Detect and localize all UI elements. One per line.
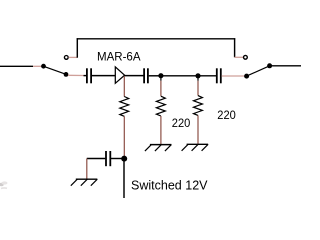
capacitor C4	[217, 68, 221, 83]
wire input left	[0, 65, 42, 67]
svg-text:220: 220	[172, 116, 191, 130]
wire node B to C4	[198, 75, 216, 77]
wire output right	[270, 65, 301, 67]
wire node B stub down	[197, 76, 199, 96]
switch S2 pole dot	[244, 74, 249, 79]
switch S2 blade	[247, 66, 270, 76]
ground G3	[182, 144, 209, 151]
wire switch S1 to C1	[68, 74, 86, 76]
switch S1 blade	[44, 66, 66, 74]
capacitor C2	[144, 68, 148, 83]
wire C4 to switch S2	[222, 75, 245, 77]
ground G1	[71, 179, 98, 186]
wire node A to node B	[161, 75, 198, 77]
wire C3 to ground corner	[87, 158, 106, 160]
wire C2 to node A	[149, 75, 161, 77]
wire stub to bypass left riser	[69, 56, 78, 58]
wire R3 to ground G3	[197, 115, 199, 143]
wire node C to C3	[111, 158, 122, 160]
resistor R1	[120, 97, 129, 117]
svg-text:MAR-6A: MAR-6A	[97, 50, 141, 64]
wire R2 to ground G2	[160, 116, 162, 144]
svg-text:220: 220	[217, 108, 236, 122]
ground G2	[145, 145, 172, 152]
node C junction dot	[121, 156, 127, 162]
wire node C to bottom edge	[123, 161, 125, 199]
node B junction dot	[195, 73, 200, 78]
bypass rail left riser	[76, 38, 78, 58]
faint smudge bottom left	[0, 181, 7, 188]
capacitor C3	[106, 151, 110, 166]
wire node A stub down	[160, 76, 162, 96]
wire corner down to G1	[86, 159, 88, 180]
wire R1 to node C	[123, 116, 125, 156]
svg-text:Switched 12V: Switched 12V	[131, 178, 208, 193]
wire stub to right circle	[235, 56, 244, 58]
bypass top rail wire	[77, 38, 236, 40]
wire U1 apex to R1	[123, 76, 125, 96]
resistor R2	[156, 96, 165, 116]
switch S2 upper throw terminal	[244, 55, 248, 59]
op-amp U1 MAR-6A triangle	[115, 67, 124, 83]
switch S1 pole dot	[41, 64, 46, 69]
bypass rail right riser	[234, 38, 236, 57]
switch S1 throw dot	[64, 72, 69, 77]
resistor R3	[194, 96, 203, 116]
wire C1 to U1	[92, 75, 115, 77]
capacitor C1	[87, 68, 91, 83]
switch S2 throw dot	[267, 63, 272, 68]
node A junction dot	[158, 73, 163, 78]
wire U1 to C2	[125, 75, 144, 77]
switch S1 upper throw terminal	[64, 56, 68, 60]
